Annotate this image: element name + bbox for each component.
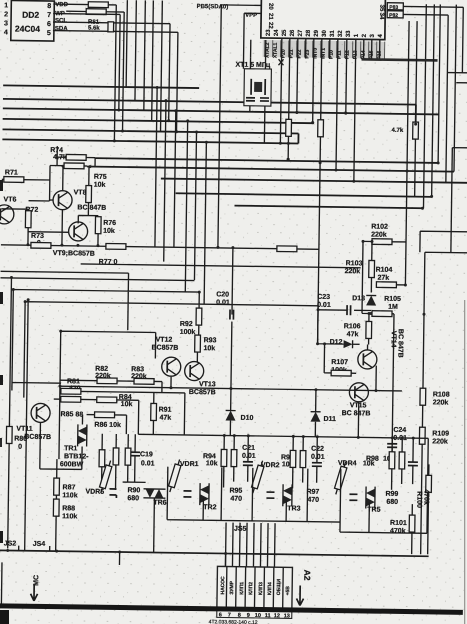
svg-text:21: 21: [267, 13, 273, 20]
svg-text:0.01: 0.01: [216, 299, 230, 306]
svg-text:47k: 47k: [159, 415, 171, 422]
svg-text:C23: C23: [317, 294, 330, 301]
svg-text:23: 23: [266, 29, 272, 36]
svg-text:C20: C20: [216, 291, 229, 298]
svg-text:24: 24: [274, 29, 280, 36]
svg-text:110k: 110k: [62, 492, 77, 499]
svg-text:10k: 10k: [121, 401, 133, 408]
svg-text:0.01: 0.01: [317, 302, 331, 309]
svg-text:220k: 220k: [345, 268, 361, 275]
svg-text:220k: 220k: [371, 231, 387, 238]
svg-text:TR2: TR2: [203, 504, 216, 511]
svg-text:R86 10k: R86 10k: [94, 422, 121, 429]
svg-text:R76: R76: [103, 220, 116, 227]
svg-text:22: 22: [267, 22, 273, 29]
svg-text:1: 1: [4, 2, 8, 9]
svg-text:BC 847B: BC 847B: [342, 410, 371, 417]
svg-text:VDR1: VDR1: [180, 461, 199, 468]
svg-text:А2: А2: [302, 570, 312, 581]
svg-text:TR3: TR3: [287, 505, 300, 512]
svg-text:13: 13: [284, 613, 290, 619]
svg-text:11: 11: [265, 613, 271, 619]
svg-text:КЛП1: КЛП1: [239, 582, 245, 595]
svg-text:BC 847B: BC 847B: [77, 204, 106, 211]
svg-text:P83: P83: [389, 5, 398, 11]
svg-text:5.6k: 5.6k: [88, 26, 100, 32]
svg-text:10: 10: [255, 613, 261, 619]
svg-text:R90: R90: [127, 487, 140, 494]
svg-text:R95: R95: [229, 488, 242, 495]
svg-text:0: 0: [18, 444, 22, 451]
svg-text:R105: R105: [384, 296, 401, 303]
svg-text:6: 6: [47, 21, 51, 28]
svg-text:VT6: VT6: [4, 196, 17, 203]
svg-text:VT14: VT14: [390, 331, 397, 348]
svg-text:32: 32: [338, 30, 344, 37]
svg-text:8: 8: [238, 613, 241, 619]
svg-text:35: 35: [378, 5, 384, 12]
svg-text:BTB12-: BTB12-: [64, 453, 89, 460]
svg-text:5: 5: [47, 30, 51, 37]
svg-text:10k: 10k: [103, 228, 115, 235]
svg-text:JS2: JS2: [4, 540, 17, 547]
svg-text:4.7k: 4.7k: [392, 128, 404, 134]
svg-text:24C04: 24C04: [15, 24, 40, 34]
svg-text:ОБЩИ: ОБЩИ: [276, 579, 282, 596]
svg-text:3: 3: [4, 20, 8, 27]
svg-text:R107: R107: [331, 359, 348, 366]
svg-text:R108: R108: [433, 391, 450, 398]
svg-text:НАСОС: НАСОС: [220, 576, 226, 595]
svg-text:7: 7: [228, 613, 231, 619]
svg-text:4T2.033.682-140 c.12: 4T2.033.682-140 c.12: [209, 619, 258, 624]
svg-text:10k: 10k: [94, 182, 106, 189]
svg-text:680: 680: [127, 495, 139, 502]
svg-text:34: 34: [378, 13, 384, 20]
svg-text:10k: 10k: [203, 345, 215, 352]
svg-text:R75: R75: [94, 174, 107, 181]
svg-text:8: 8: [47, 3, 51, 10]
svg-text:DD2: DD2: [22, 10, 39, 20]
svg-text:2: 2: [4, 11, 8, 18]
svg-text:R87: R87: [62, 484, 75, 491]
svg-text:0.01: 0.01: [311, 454, 325, 461]
svg-text:R106: R106: [344, 323, 361, 330]
svg-text:47k: 47k: [347, 331, 359, 338]
svg-text:P12: P12: [345, 50, 351, 59]
svg-text:R104: R104: [376, 267, 393, 274]
svg-text:28: 28: [306, 29, 312, 36]
svg-text:470: 470: [230, 496, 242, 503]
svg-text:TR1: TR1: [64, 445, 77, 452]
svg-text:R73: R73: [31, 233, 44, 240]
svg-text:SCL: SCL: [55, 18, 67, 24]
svg-text:0.01: 0.01: [141, 460, 155, 467]
svg-text:P82: P82: [389, 13, 398, 19]
svg-text:VDR5: VDR5: [85, 489, 104, 496]
svg-text:R91: R91: [159, 407, 172, 414]
svg-text:9: 9: [247, 613, 250, 619]
svg-text:R109: R109: [432, 430, 449, 437]
svg-text:КЛП3: КЛП3: [258, 582, 264, 595]
svg-text:R97: R97: [306, 489, 319, 496]
svg-text:R85 88: R85 88: [61, 411, 84, 418]
svg-text:R101: R101: [390, 520, 407, 527]
svg-text:33: 33: [346, 30, 352, 37]
svg-text:26: 26: [290, 29, 296, 36]
svg-text:6: 6: [219, 612, 222, 618]
svg-text:4: 4: [4, 29, 8, 36]
svg-text:27k: 27k: [377, 275, 389, 282]
svg-text:КЛП4: КЛП4: [267, 582, 273, 595]
svg-text:680: 680: [386, 499, 398, 506]
svg-text:TR6: TR6: [153, 499, 166, 506]
svg-text:12: 12: [274, 613, 280, 619]
svg-text:VT9;BC857B: VT9;BC857B: [53, 250, 95, 258]
svg-text:110k: 110k: [62, 513, 77, 520]
svg-text:25: 25: [282, 29, 288, 36]
svg-text:КЛП2: КЛП2: [248, 582, 254, 595]
svg-text:R93: R93: [204, 337, 217, 344]
svg-text:30: 30: [322, 29, 328, 36]
svg-text:220k: 220k: [432, 438, 448, 445]
svg-text:R102: R102: [371, 223, 388, 230]
svg-text:D11: D11: [323, 416, 336, 423]
svg-text:D10: D10: [240, 415, 253, 422]
svg-text:R92: R92: [180, 321, 193, 328]
svg-text:BC857B: BC857B: [24, 434, 51, 441]
svg-text:R100: R100: [415, 491, 422, 508]
svg-text:D13: D13: [352, 295, 365, 302]
svg-text:600BW: 600BW: [60, 461, 84, 468]
svg-text:BC857B: BC857B: [189, 389, 216, 396]
svg-text:C24: C24: [393, 427, 406, 434]
svg-text:R98: R98: [366, 455, 379, 462]
svg-text:JS4: JS4: [33, 541, 46, 548]
svg-text:220k: 220k: [433, 399, 449, 406]
svg-text:R103: R103: [346, 260, 363, 267]
svg-text:R80: R80: [14, 436, 27, 443]
svg-text:R71: R71: [5, 169, 18, 176]
svg-text:МС: МС: [33, 575, 40, 586]
svg-text:R99: R99: [385, 491, 398, 498]
svg-text:VT12: VT12: [156, 337, 173, 344]
svg-text:VT11: VT11: [16, 426, 33, 433]
svg-text:29: 29: [314, 29, 320, 36]
svg-text:VT13: VT13: [199, 381, 216, 388]
svg-text:7: 7: [47, 12, 51, 19]
svg-text:R88: R88: [62, 505, 75, 512]
svg-text:VDD: VDD: [55, 2, 68, 8]
svg-text:XTAL1: XTAL1: [273, 42, 279, 58]
svg-text:BC 847B: BC 847B: [396, 329, 403, 358]
svg-text:470k: 470k: [390, 528, 406, 535]
svg-text:1M: 1M: [388, 304, 398, 311]
svg-text:10k: 10k: [206, 460, 218, 467]
svg-text:20: 20: [267, 3, 273, 10]
svg-text:27: 27: [298, 29, 304, 36]
svg-text:C19: C19: [140, 451, 153, 458]
svg-text:31: 31: [330, 30, 336, 37]
svg-text:VT8: VT8: [74, 189, 87, 196]
svg-text:470: 470: [307, 497, 319, 504]
svg-text:100k: 100k: [180, 329, 196, 336]
svg-text:D12: D12: [330, 339, 343, 346]
svg-text:ЗУМР: ЗУМР: [229, 580, 235, 594]
svg-text:+5В: +5В: [285, 586, 291, 596]
svg-text:0.01: 0.01: [242, 453, 256, 460]
svg-text:R94: R94: [203, 453, 216, 460]
